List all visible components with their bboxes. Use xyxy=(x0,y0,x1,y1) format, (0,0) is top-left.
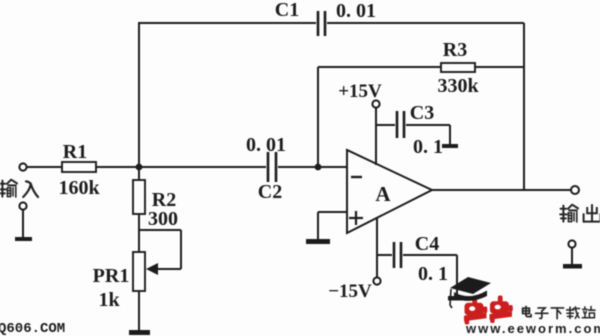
input ground stem xyxy=(22,210,24,238)
output ground stem xyxy=(571,248,573,265)
svg-text:www.eeworm.com: www.eeworm.com xyxy=(465,321,600,336)
wire: R3 line left segment xyxy=(318,66,441,68)
node junction B dot xyxy=(315,164,322,171)
wire: R1 to C2 xyxy=(96,166,266,168)
resistor R2 xyxy=(133,180,145,214)
wire: R2 top lead xyxy=(138,167,140,180)
svg-text:PR1: PR1 xyxy=(93,265,130,287)
label 输入 input xyxy=(0,180,38,197)
svg-text:C2: C2 xyxy=(258,181,282,203)
wire: PR1 bottom lead xyxy=(138,291,140,331)
op-amp minus sign xyxy=(351,176,362,178)
svg-text:+15V: +15V xyxy=(338,81,382,102)
svg-text:R1: R1 xyxy=(63,141,87,163)
output terminal circle xyxy=(571,186,579,194)
capacitor C2 xyxy=(268,152,276,182)
svg-text:C3: C3 xyxy=(410,102,434,124)
capacitor C4 xyxy=(394,242,401,268)
wire: non-inverting ground stem xyxy=(317,212,319,240)
svg-text:160k: 160k xyxy=(58,177,100,199)
svg-text:330k: 330k xyxy=(437,75,479,97)
wire: +15V supply down to op-amp xyxy=(375,108,377,165)
wire: wiper branch horizontal bottom xyxy=(156,268,181,270)
label 输出 output xyxy=(560,205,600,222)
wire: C3 ground stem xyxy=(449,125,451,145)
-15V terminal circle xyxy=(373,277,380,284)
wire: vertical from R3 line down to node B xyxy=(317,67,319,167)
watermark graduation cap base xyxy=(454,291,487,301)
watermark logo 虫虫 xyxy=(464,296,513,325)
wire: C2 to op-amp inverting input xyxy=(278,166,348,168)
svg-text:A: A xyxy=(375,182,391,206)
wire: C4 ground stem xyxy=(456,255,458,297)
watermark text 电子下载站 xyxy=(523,307,595,319)
wire: -15V supply up to op-amp xyxy=(376,217,378,277)
wire: C4 left lead xyxy=(377,254,392,256)
svg-text:0. 1: 0. 1 xyxy=(413,136,443,158)
wire: top line right of C1 xyxy=(327,22,524,24)
capacitor C3 xyxy=(397,111,404,138)
ground bar at non-inverting input xyxy=(306,239,330,244)
ground bar below PR1 xyxy=(129,330,150,335)
op-amp plus sign xyxy=(349,211,363,225)
potentiometer PR1 wiper arrow xyxy=(146,263,158,275)
wire: C3 right lead xyxy=(406,124,450,126)
wire: output line xyxy=(432,189,571,191)
svg-text:C1: C1 xyxy=(275,0,299,21)
wire: top line left of C1 xyxy=(138,22,316,24)
ground bar of C3 xyxy=(442,144,458,148)
svg-text:C4: C4 xyxy=(415,233,439,255)
op-amp A triangle xyxy=(347,150,432,233)
wire: R3 line right segment xyxy=(475,66,524,68)
wire: C4 right lead xyxy=(403,254,457,256)
wire: wiper branch horizontal top xyxy=(139,229,181,231)
output ground terminal circle xyxy=(568,240,575,247)
wire: right vertical from top line down to output line xyxy=(523,23,525,190)
wire: wiper branch vertical xyxy=(180,230,182,269)
capacitor C1 xyxy=(318,11,325,36)
input terminal circle xyxy=(19,163,26,170)
wire: non-inverting input xyxy=(318,211,348,213)
watermark graduation cap board xyxy=(450,277,491,294)
svg-text:0. 1: 0. 1 xyxy=(418,263,448,285)
node junction A dot xyxy=(136,164,143,171)
svg-text:0. 01: 0. 01 xyxy=(246,134,286,156)
input ground terminal circle xyxy=(19,202,26,209)
wire: vertical from node A up to top line xyxy=(138,23,140,167)
output ground bar xyxy=(563,264,582,269)
svg-text:300: 300 xyxy=(148,208,178,230)
resistor R3 xyxy=(441,63,475,72)
svg-text:Q606.COM: Q606.COM xyxy=(0,321,65,336)
svg-text:R3: R3 xyxy=(443,39,467,61)
svg-text:−15V: −15V xyxy=(328,281,372,302)
potentiometer PR1 xyxy=(133,252,145,291)
svg-text:0. 01: 0. 01 xyxy=(336,0,376,22)
wire: main input line left of R1 xyxy=(27,166,62,168)
input ground bar xyxy=(15,237,32,241)
resistor R1 xyxy=(62,162,96,172)
+15V terminal circle xyxy=(372,100,379,107)
watermark graduation cap tassel xyxy=(450,289,452,308)
ground bar of C4 xyxy=(448,296,466,301)
svg-text:1k: 1k xyxy=(98,289,120,311)
wire: R2 bottom lead to PR1 xyxy=(138,214,140,252)
wire: C3 left lead xyxy=(376,124,395,126)
